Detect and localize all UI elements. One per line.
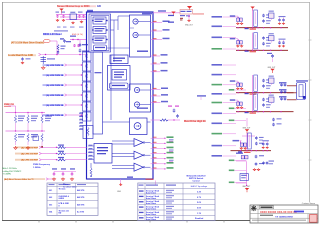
svg-text:001: 001: [49, 190, 52, 192]
svg-text:AB STS: AB STS: [77, 203, 85, 206]
svg-text:3.3V: 3.3V: [197, 191, 202, 193]
svg-text:Auto Detect: Auto Detect: [146, 197, 156, 200]
svg-text:1.2MHz: 1.2MHz: [33, 167, 41, 169]
svg-text:1.1V: 1.1V: [197, 213, 202, 215]
svg-text:Auto Detect: Auto Detect: [146, 208, 156, 211]
svg-text:Auto Detect: Auto Detect: [146, 202, 156, 205]
svg-text:LeMag 3567 PWM72: LeMag 3567 PWM72: [3, 171, 23, 173]
svg-text:Auto Detect: Auto Detect: [146, 213, 156, 216]
svg-text:AB STS: AB STS: [77, 196, 85, 199]
svg-text:0.0V: 0.0V: [197, 208, 202, 210]
svg-text:MHz 1.2/2.2kHz: MHz 1.2/2.2kHz: [3, 168, 17, 170]
svg-text:Disabled: Disabled: [195, 218, 204, 220]
svg-text:XXXX XXXXX XXX-XX XXX XX: XXXX XXXXX XXX-XX XXX XX: [260, 210, 297, 214]
svg-text:TX 12AWG4 MX8: TX 12AWG4 MX8: [275, 215, 293, 218]
svg-text:H/A DC Top voltage: H/A DC Top voltage: [191, 185, 207, 188]
svg-text:Custom Name: Custom Name: [302, 202, 316, 205]
svg-text:Control: Control: [192, 180, 200, 183]
svg-text:GND_OUT: GND_OUT: [185, 24, 193, 26]
svg-text:Auto Detect: Auto Detect: [146, 191, 156, 194]
svg-text:TheCLk: TheCLk: [59, 189, 67, 191]
svg-text:002: 002: [49, 197, 52, 199]
svg-text:GND_OUT: GND_OUT: [243, 127, 251, 129]
svg-text:GND: GND: [117, 191, 122, 193]
svg-text:AB STS: AB STS: [77, 189, 85, 192]
svg-text:003: 003: [49, 204, 52, 206]
svg-text:5.0V: 5.0V: [197, 202, 202, 204]
svg-text:LPB & GND: LPB & GND: [59, 203, 70, 205]
svg-text:T 3.3MHz: T 3.3MHz: [3, 174, 12, 176]
svg-text:0.7V: 0.7V: [197, 197, 202, 199]
svg-text:GND_OUT: GND_OUT: [268, 67, 276, 69]
svg-text:GND8: GND8: [59, 198, 64, 200]
svg-text:Auto Detect: Auto Detect: [146, 218, 156, 221]
svg-text:8: 8: [59, 205, 60, 207]
svg-text:GND_OUT: GND_OUT: [242, 186, 250, 188]
svg-text:Ax STS: Ax STS: [77, 211, 85, 214]
svg-text:GD: GD: [97, 4, 101, 8]
